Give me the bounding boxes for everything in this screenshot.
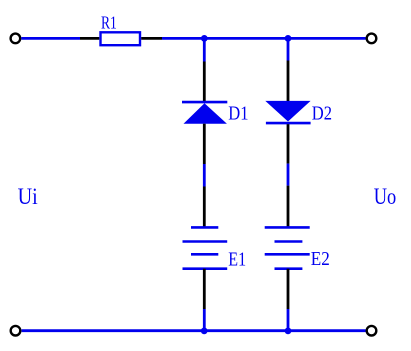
wire resistor right lead black xyxy=(141,37,162,40)
wire resistor left lead black xyxy=(80,37,99,40)
diode D1 xyxy=(182,102,227,124)
terminal top-right xyxy=(367,34,377,44)
terminal bottom-left xyxy=(11,326,21,336)
node junction bottom branch1 xyxy=(201,328,208,335)
diode D2 xyxy=(265,101,310,123)
wire D2 anode lead black xyxy=(287,61,290,102)
terminal top-left xyxy=(11,34,21,44)
svg-text:Ui: Ui xyxy=(18,184,38,209)
node junction top branch2 xyxy=(285,35,292,42)
wire branch1 middle blue xyxy=(203,164,206,187)
wire D1 anode lead black xyxy=(203,124,206,164)
wire branch1 top blue xyxy=(203,38,206,61)
wire top rail right blue xyxy=(162,37,366,40)
wire branch2 middle blue xyxy=(287,164,290,186)
wire E2 bottom lead black xyxy=(287,269,290,309)
node junction top branch1 xyxy=(201,35,208,42)
wire top rail left blue xyxy=(21,37,80,40)
wire D2 cathode lead black xyxy=(287,124,290,163)
wire branch2 bottom blue xyxy=(287,309,290,331)
svg-text:E2: E2 xyxy=(311,248,330,270)
battery E2 xyxy=(265,227,310,268)
resistor R1 xyxy=(101,32,141,45)
wire D1 cathode lead black xyxy=(203,62,206,102)
wire branch1 bottom blue xyxy=(203,309,206,331)
wire branch2 top blue xyxy=(287,38,290,60)
svg-text:E1: E1 xyxy=(228,249,246,271)
wire E1 top lead black xyxy=(203,187,206,227)
svg-text:R1: R1 xyxy=(101,13,117,33)
terminal bottom-right xyxy=(367,326,377,336)
wire E2 top lead black xyxy=(287,186,290,227)
node junction bottom branch2 xyxy=(285,328,292,335)
wire E1 bottom lead black xyxy=(203,269,206,309)
svg-text:D2: D2 xyxy=(312,103,332,125)
wire bottom rail blue xyxy=(22,329,366,332)
svg-text:Uo: Uo xyxy=(374,184,397,209)
svg-text:D1: D1 xyxy=(228,103,248,125)
battery E1 xyxy=(183,227,228,268)
